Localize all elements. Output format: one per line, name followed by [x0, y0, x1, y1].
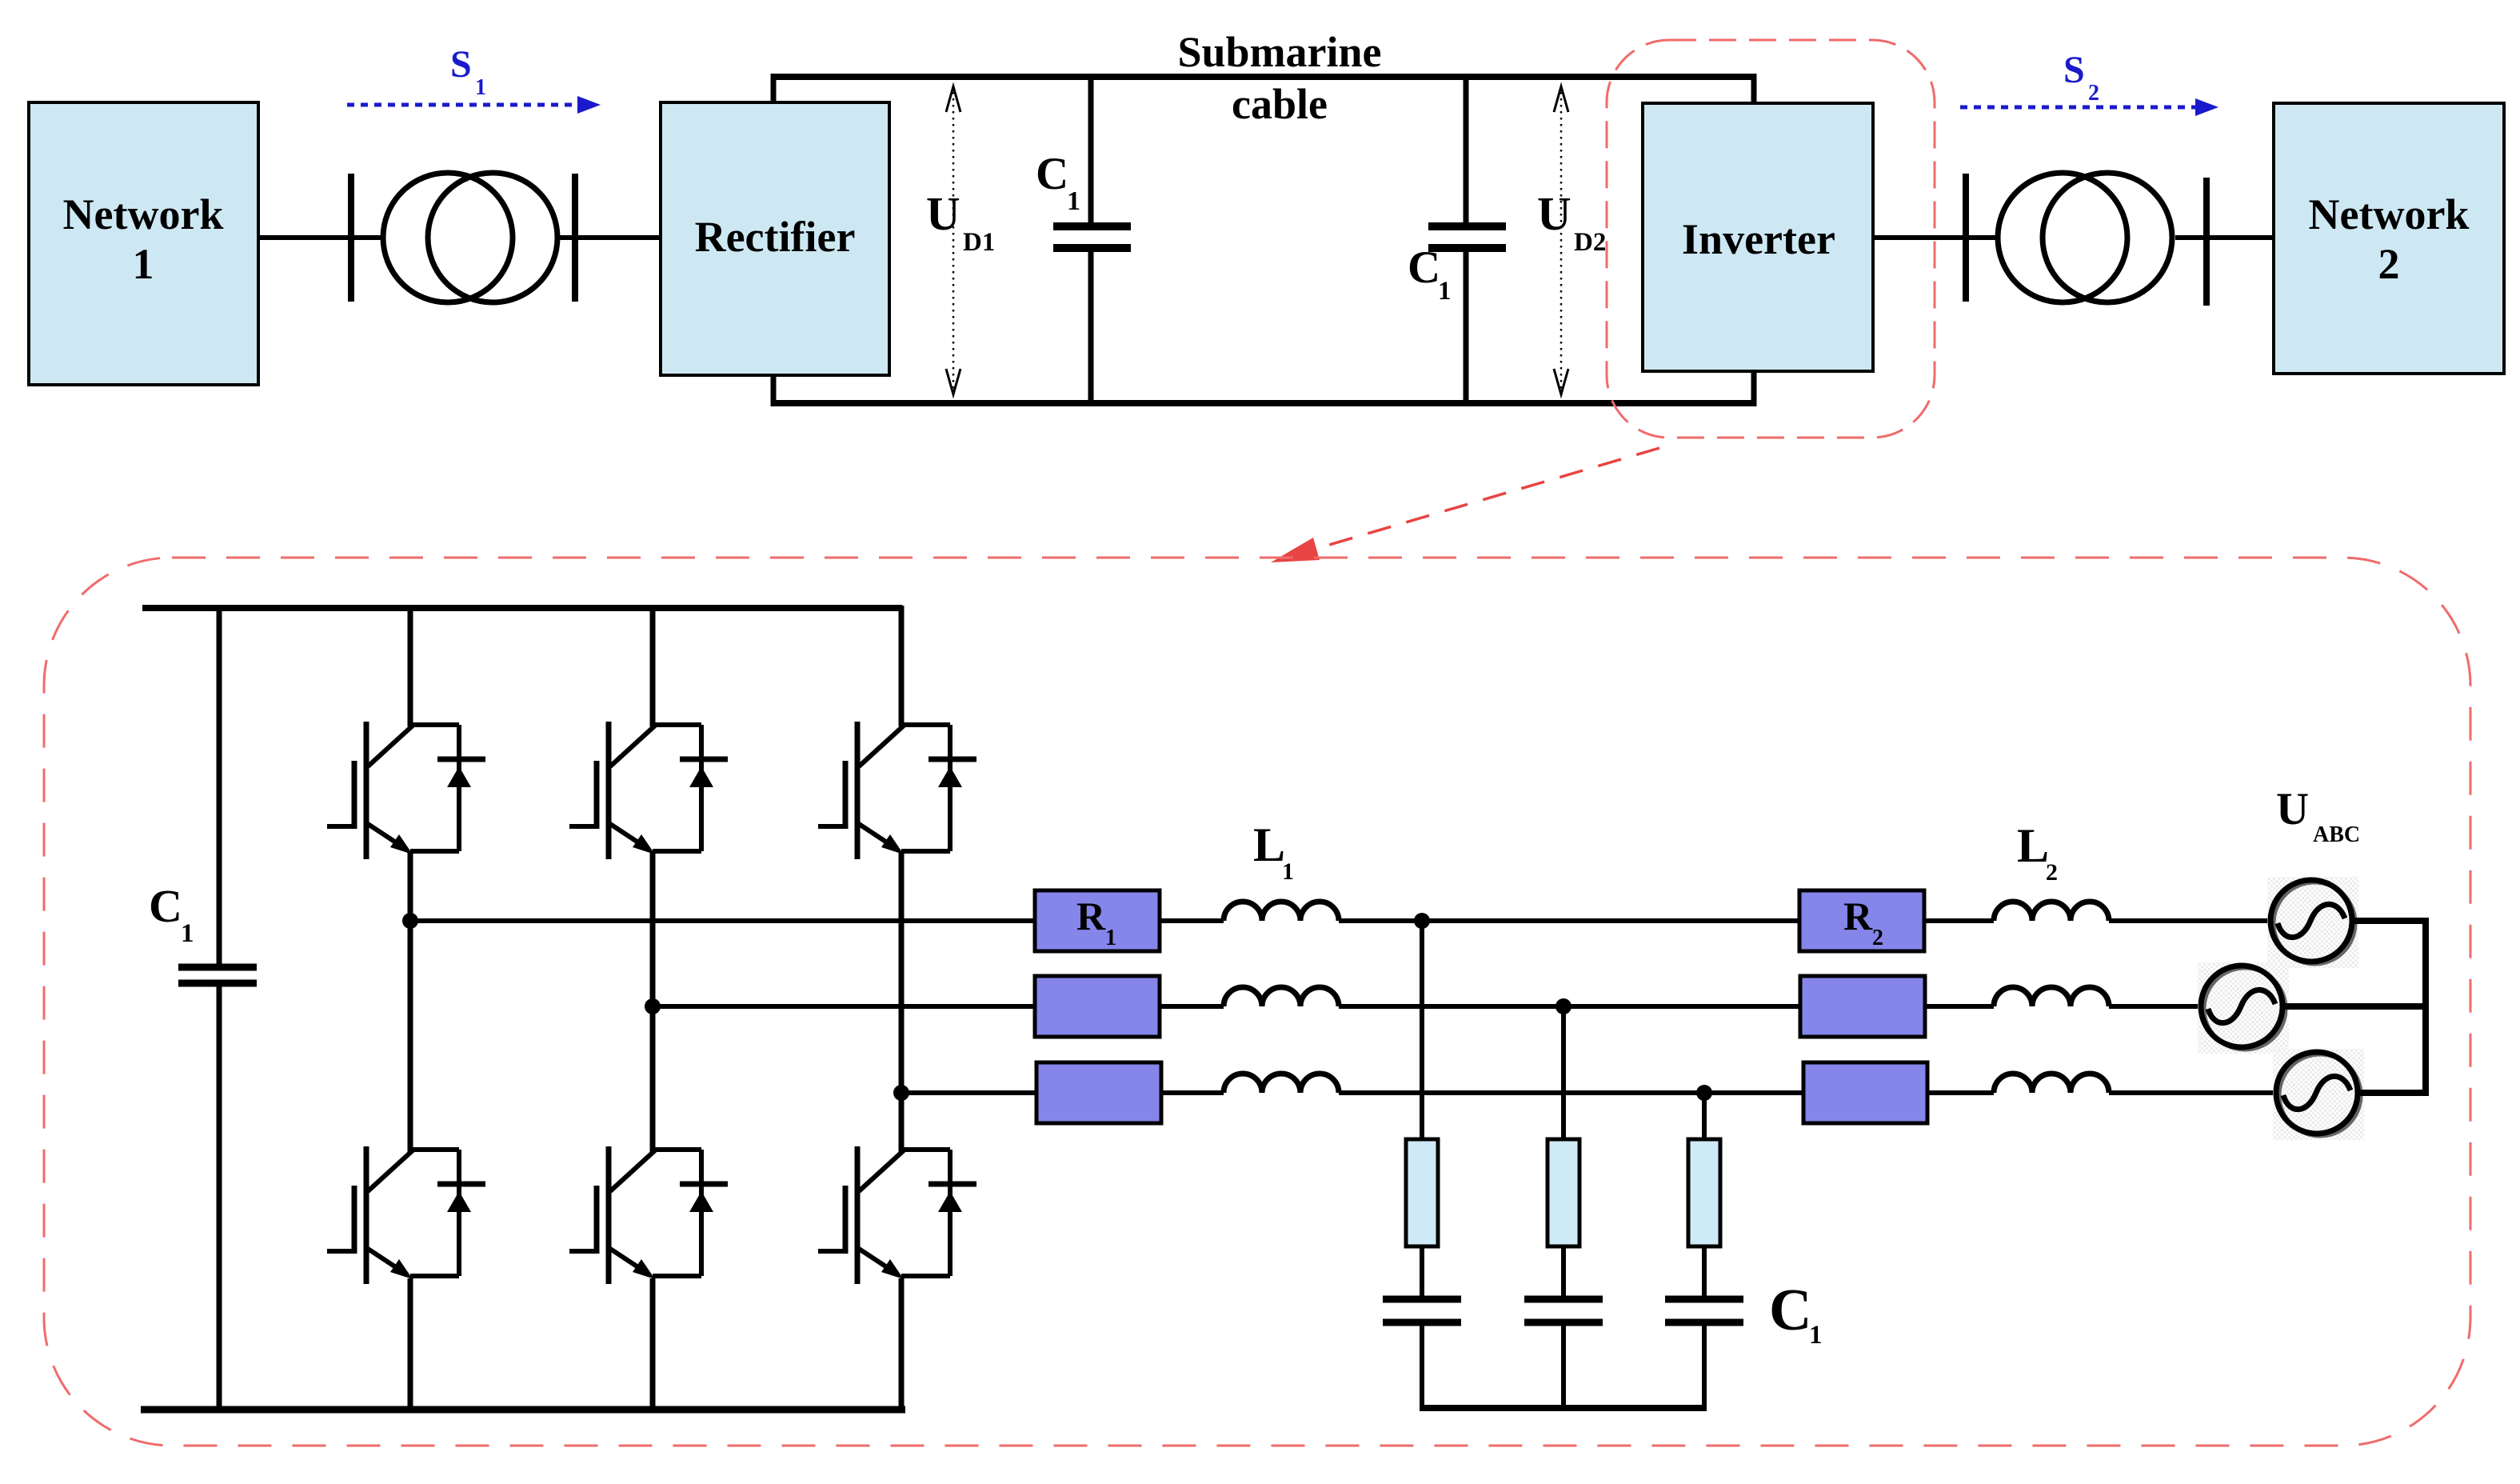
- svg-text:1: 1: [181, 919, 194, 948]
- node filter tap B: [1556, 998, 1572, 1014]
- svg-text:2: 2: [2378, 240, 2400, 288]
- svg-text:Submarine: Submarine: [1177, 28, 1381, 76]
- label C1 (DC link right): [1408, 242, 1452, 306]
- node filter tap C: [1696, 1085, 1712, 1101]
- transistor Q6 (bottom IGBT leg C): [818, 1146, 976, 1284]
- wire Network1 to transformer T1: [258, 235, 381, 240]
- svg-text:2: 2: [2088, 81, 2099, 106]
- svg-text:1: 1: [1105, 926, 1116, 950]
- voltage arrow UD2: [1554, 86, 1568, 395]
- resistor R2 (phase C): [1803, 1062, 1927, 1123]
- transformer T1: [383, 173, 557, 302]
- label C1 (filter): [1769, 1278, 1823, 1350]
- filter branch B: wire, damping resistor, capacitor: [1524, 1006, 1603, 1411]
- node filter tap A: [1414, 913, 1430, 929]
- label R1: [1076, 894, 1116, 950]
- svg-text:1: 1: [133, 240, 154, 288]
- transformer T2: [1998, 173, 2172, 302]
- label R2: [1843, 894, 1883, 950]
- filter branch C: wire, damping resistor, capacitor: [1665, 1093, 1743, 1411]
- DC link right edge: [1751, 74, 1757, 406]
- wire source B to bus: [2282, 1003, 2428, 1010]
- label C1 (DC link left): [1036, 149, 1080, 216]
- S1 power flow arrow: [347, 96, 601, 114]
- wire source C to bus: [2358, 1090, 2428, 1096]
- svg-text:1: 1: [475, 75, 486, 100]
- node phase A junction: [402, 913, 418, 929]
- node phase C junction: [893, 1085, 909, 1101]
- dashed pointer arrow to detail: [1271, 448, 1659, 562]
- inductor L1 (phase A): [1224, 902, 1339, 921]
- bus bar left of T2: [1963, 174, 1969, 302]
- wire leg B vertical: [650, 606, 656, 1413]
- svg-text:1: 1: [1282, 858, 1294, 885]
- svg-text:C: C: [1036, 149, 1068, 199]
- svg-text:ABC: ABC: [2313, 822, 2360, 847]
- svg-text:2: 2: [2046, 859, 2058, 886]
- source VC (grid phase C): [2273, 1049, 2364, 1140]
- bus bar left of T1: [348, 174, 354, 302]
- svg-text:C: C: [1408, 242, 1440, 293]
- DC plus bus (top): [142, 605, 902, 611]
- resistor R2 (phase B): [1800, 976, 1925, 1037]
- svg-text:Rectifier: Rectifier: [695, 213, 856, 261]
- inductor L2 (phase B): [1994, 987, 2109, 1006]
- wire phase C row: [901, 1090, 2426, 1095]
- label UD2: [1537, 187, 1606, 257]
- svg-text:1: 1: [1067, 186, 1080, 216]
- capacitor C1 (DC link left): [1053, 77, 1131, 403]
- wire leg C vertical: [899, 606, 905, 1413]
- svg-text:2: 2: [1872, 926, 1883, 950]
- resistor R1 (phase A): [1035, 890, 1160, 951]
- svg-text:L: L: [2017, 819, 2049, 872]
- svg-text:U: U: [926, 187, 960, 240]
- bus bar right of T2: [2203, 178, 2210, 306]
- transistor Q4 (bottom IGBT leg A): [327, 1146, 485, 1284]
- svg-text:Network: Network: [2309, 190, 2470, 238]
- svg-text:Network: Network: [63, 190, 224, 238]
- DC minus bus (bottom): [141, 1406, 905, 1414]
- transistor Q5 (bottom IGBT leg B): [569, 1146, 728, 1284]
- svg-text:cable: cable: [1232, 80, 1328, 128]
- resistor R1 (phase C): [1036, 1062, 1161, 1123]
- inductor L1 (phase C): [1224, 1074, 1339, 1093]
- inductor L2 (phase A): [1994, 902, 2109, 921]
- transistor Q3 (top IGBT leg C): [818, 722, 976, 859]
- inductor L1 (phase B): [1224, 987, 1339, 1006]
- svg-text:1: 1: [1438, 277, 1452, 306]
- label S2: [2063, 49, 2099, 106]
- resistor R2 (phase A): [1799, 890, 1924, 951]
- svg-text:L: L: [1253, 818, 1285, 871]
- label C1 (inverter DC side): [149, 880, 194, 948]
- filter branch A: wire, damping resistor, capacitor: [1383, 921, 1461, 1411]
- svg-text:S: S: [450, 43, 472, 86]
- wire grid right bus: [2422, 918, 2429, 1096]
- source VB (grid phase B): [2198, 962, 2289, 1054]
- label UABC: [2276, 784, 2360, 847]
- block Rectifier: [661, 102, 889, 375]
- svg-text:D2: D2: [1574, 228, 1606, 257]
- block Inverter: [1643, 103, 1873, 371]
- bus bar right of T1: [572, 174, 578, 302]
- label S1: [450, 43, 486, 100]
- svg-text:Inverter: Inverter: [1682, 215, 1835, 263]
- svg-text:U: U: [1537, 187, 1572, 240]
- capacitor C1 (inverter DC side): [178, 608, 257, 1410]
- svg-text:U: U: [2276, 784, 2309, 834]
- label L2: [2017, 819, 2058, 886]
- label UD1: [926, 187, 995, 257]
- svg-text:S: S: [2063, 49, 2085, 91]
- transistor Q1 (top IGBT leg A): [327, 722, 485, 859]
- DC link left edge: [771, 74, 777, 406]
- svg-text:R: R: [1843, 894, 1873, 938]
- S2 power flow arrow: [1960, 98, 2218, 116]
- transistor Q2 (top IGBT leg B): [569, 722, 728, 859]
- source VA (grid phase A): [2267, 877, 2358, 968]
- svg-text:C: C: [1769, 1278, 1811, 1343]
- label L1: [1253, 818, 1294, 885]
- wire source A to bus: [2352, 918, 2428, 924]
- wire filter bottom bus: [1422, 1405, 1704, 1411]
- dashed outline around Inverter: [1607, 40, 1935, 438]
- wire phase B row: [653, 1004, 2426, 1009]
- wire phase A row: [410, 918, 2426, 923]
- svg-text:D1: D1: [963, 228, 995, 257]
- dashed detail boundary box: [44, 558, 2470, 1446]
- wire T1 to Rectifier: [559, 235, 661, 240]
- block Network 1: [29, 102, 258, 385]
- block Network 2: [2274, 103, 2504, 374]
- wire T2 to Network2: [2175, 235, 2274, 240]
- DC link top rail: [773, 74, 1754, 80]
- capacitor C1 (DC link right): [1428, 77, 1506, 403]
- label Submarine cable: [1177, 28, 1381, 128]
- wire Inverter to transformer T2: [1873, 235, 1996, 240]
- voltage arrow UD1: [946, 86, 960, 395]
- svg-text:C: C: [149, 880, 182, 932]
- resistor R1 (phase B): [1035, 976, 1160, 1037]
- inductor L2 (phase C): [1994, 1074, 2109, 1093]
- DC link bottom rail: [773, 400, 1754, 406]
- node phase B junction: [645, 998, 661, 1014]
- wire leg A vertical: [408, 606, 413, 1413]
- svg-text:R: R: [1076, 894, 1106, 938]
- svg-text:1: 1: [1809, 1321, 1823, 1350]
